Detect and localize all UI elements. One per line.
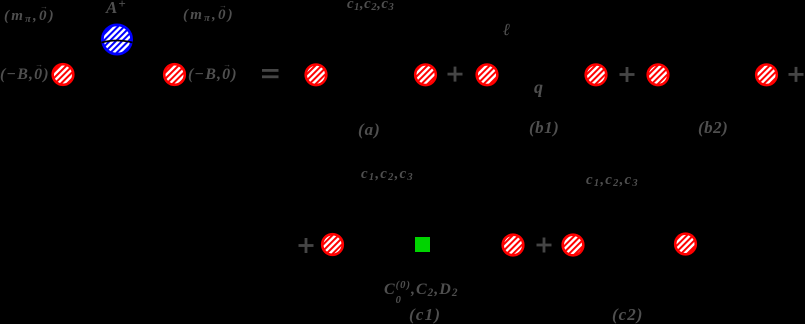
counterterm square (green, diagram c1) bbox=[415, 237, 430, 252]
label (-B,0) left bbox=[0, 67, 50, 83]
label q (momentum, b1) bbox=[534, 78, 543, 96]
plus sign 1 bbox=[448, 67, 463, 82]
vertex V8 (red circle, diagram b2 right) bbox=[756, 65, 777, 86]
label (-B,0) right bbox=[188, 67, 238, 83]
vertex V12 (red circle, diagram c2 right) bbox=[675, 234, 696, 255]
vertex V10 (red circle, diagram c1 right) bbox=[503, 235, 524, 256]
equals sign bbox=[262, 69, 279, 78]
label (b1) bbox=[529, 119, 559, 136]
vertex V5 (red circle, diagram b1 left) bbox=[477, 65, 498, 86]
vertex V1 (red hatched circle, tree diagram left) bbox=[53, 64, 74, 85]
vertex V7 (red circle, diagram b2 left) bbox=[648, 65, 669, 86]
plus sign 2 bbox=[620, 67, 635, 82]
vertex V11 (red circle, diagram c2 left) bbox=[563, 235, 584, 256]
label c1,c2,c3 (diagram c1) bbox=[361, 167, 414, 184]
label (m_pi,0) left bbox=[4, 9, 56, 26]
label A+ (blob name) bbox=[106, 0, 126, 16]
blob A+ (blue hatched circle, tree diagram) bbox=[102, 25, 133, 54]
vertex V4 (red circle, diagram a right) bbox=[415, 65, 436, 86]
plus sign 5 (between c1 and c2) bbox=[537, 238, 552, 253]
vertex V2 (red hatched circle, tree diagram right) bbox=[164, 64, 185, 85]
label (c1) bbox=[409, 306, 441, 323]
label l (loop momentum, b1) bbox=[503, 21, 510, 38]
label (a) bbox=[358, 121, 381, 138]
label C0(0),C2,D2 (counterterm couplings) bbox=[384, 281, 458, 306]
label c1,c2,c3 (diagram c2) bbox=[586, 173, 639, 190]
label c1,c2,c3 (diagram a) bbox=[347, 0, 394, 14]
plus sign 3 (right edge) bbox=[789, 67, 804, 82]
label (m_pi,0) right bbox=[183, 8, 235, 25]
label (b2) bbox=[698, 119, 728, 136]
vertex V3 (red circle, diagram a left) bbox=[306, 65, 327, 86]
plus sign 4 (row 2 leading) bbox=[299, 238, 314, 253]
label (c2) bbox=[612, 306, 643, 323]
vertex V9 (red circle, diagram c1 left) bbox=[322, 234, 343, 255]
vertex V6 (red circle, diagram b1 right) bbox=[586, 65, 607, 86]
